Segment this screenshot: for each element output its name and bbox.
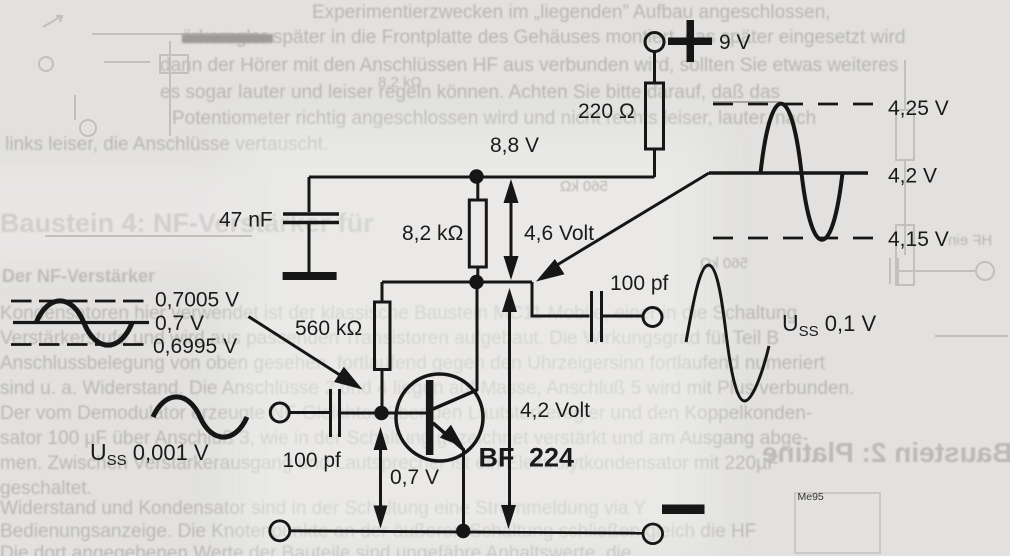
svg-text:0,7005 V: 0,7005 V: [155, 289, 239, 312]
svg-text:BF: BF: [479, 443, 515, 473]
wire 8.2k bottom lead: [476, 267, 479, 282]
junction node collector: [469, 275, 483, 289]
wire output lead: [603, 315, 643, 318]
faded small texts: [378, 74, 422, 91]
arrowhead collector waveform: [536, 259, 565, 282]
sine wave input Uss 0.001V: [153, 397, 247, 437]
sine wave output Uss 0.1V: [686, 265, 769, 401]
capacitor C 100pf output: [592, 291, 602, 342]
minus symbol: [662, 505, 705, 515]
resistor R 8.2k: [469, 200, 486, 267]
arrowhead 4.2V down: [501, 505, 516, 529]
dashed line 4.15V: [713, 237, 874, 240]
svg-text:4,6 Volt: 4,6 Volt: [524, 222, 594, 245]
wire collector rail: [382, 281, 532, 284]
dashed line 0.6995V: [11, 343, 144, 346]
wire top rail node 8.8V: [309, 176, 655, 179]
terminal ground left: [270, 521, 290, 541]
wire emitter vertical: [462, 449, 465, 531]
svg-text:Me95: Me95: [798, 491, 824, 503]
solid line 0.7V: [13, 321, 149, 324]
capacitor C 100pf input: [331, 389, 340, 437]
terminal input: [270, 403, 289, 422]
arrow line base waveform: [249, 317, 344, 378]
capacitor C 47nF: [283, 214, 339, 223]
resistor R 560k: [375, 302, 391, 370]
svg-text:4,2 V: 4,2 V: [888, 165, 937, 188]
transistor emitter arrowhead: [440, 425, 464, 447]
transistor emitter diagonal: [433, 423, 464, 450]
wire ground rail: [290, 531, 644, 533]
faded background text top: [312, 2, 831, 24]
transistor collector diagonal: [433, 390, 477, 409]
svg-text:560 kΩ: 560 kΩ: [295, 317, 363, 340]
svg-text:USS 0,1 V: USS 0,1 V: [782, 310, 876, 340]
svg-text:4,2 Volt: 4,2 Volt: [520, 399, 590, 422]
svg-text:4,25 V: 4,25 V: [888, 97, 949, 120]
sine wave base signal: [36, 301, 132, 345]
arrowhead 4.6V up: [504, 179, 519, 203]
ground symbol: [283, 272, 337, 280]
arrowhead 0.7V up: [374, 427, 388, 450]
svg-text:47 nF: 47 nF: [219, 209, 273, 232]
wire 220 ohm top lead: [653, 52, 656, 84]
wire elbow to output cap: [532, 282, 590, 316]
faded paragraph lines: [0, 303, 797, 325]
dashed line 0.7005V: [11, 300, 144, 303]
svg-text:0,7 V: 0,7 V: [390, 466, 439, 489]
faded mirrored heading bleed-through: [762, 437, 1010, 469]
resistor R 220 ohm: [646, 83, 664, 149]
wire base lead: [341, 412, 426, 415]
svg-text:100 pf: 100 pf: [610, 272, 669, 295]
arrowhead 4.6V down: [504, 256, 519, 280]
faded heading: [0, 208, 374, 239]
dashed line 4.25V: [713, 103, 874, 106]
svg-text:220 Ω: 220 Ω: [578, 100, 635, 123]
svg-text:224: 224: [529, 443, 574, 473]
sine wave collector signal: [761, 104, 843, 240]
arrowhead 4.2V up: [502, 288, 517, 312]
svg-text:100 pf: 100 pf: [283, 449, 342, 472]
svg-text:0,7 V: 0,7 V: [155, 312, 204, 335]
arrow line collector waveform: [552, 173, 709, 268]
transistor Q BF224 body: [396, 374, 483, 461]
plus symbol: [687, 20, 695, 62]
arrow line 0.7 V: [379, 446, 382, 512]
arrow line 4.6 Volt: [510, 196, 513, 262]
wire 220 ohm bottom lead: [653, 149, 656, 177]
svg-text:USS 0,001 V: USS 0,001 V: [90, 439, 209, 469]
wire 47nF bottom lead: [308, 224, 311, 272]
junction node emitter-ground: [456, 524, 470, 538]
svg-text:9 V: 9 V: [719, 31, 751, 54]
terminal output: [643, 308, 662, 327]
arrowhead 0.7V down: [374, 506, 388, 529]
wire collector vertical: [476, 282, 479, 391]
arrow line 4.2 Volt: [508, 306, 511, 512]
wire 560k bottom lead: [381, 370, 384, 407]
wire input lead: [289, 411, 330, 414]
junction node base: [374, 406, 388, 420]
svg-text:0,6995 V: 0,6995 V: [153, 335, 237, 358]
wire 47nF top lead: [308, 177, 311, 212]
wire 8.2k top lead: [476, 177, 479, 200]
arrowhead base waveform: [334, 367, 363, 390]
terminal ground right: [643, 524, 663, 544]
transistor base bar: [426, 380, 434, 455]
terminal +9V: [645, 33, 664, 52]
solid line 4.2V: [709, 171, 868, 174]
junction node 8.8V: [469, 169, 483, 183]
svg-text:8,8 V: 8,8 V: [490, 134, 539, 157]
paper wash overlay: [232, 128, 712, 556]
wire 560k top stub: [381, 282, 384, 302]
svg-text:8,2 kΩ: 8,2 kΩ: [402, 222, 464, 245]
svg-text:4,15 V: 4,15 V: [888, 228, 949, 251]
faded subheading: [2, 266, 155, 287]
